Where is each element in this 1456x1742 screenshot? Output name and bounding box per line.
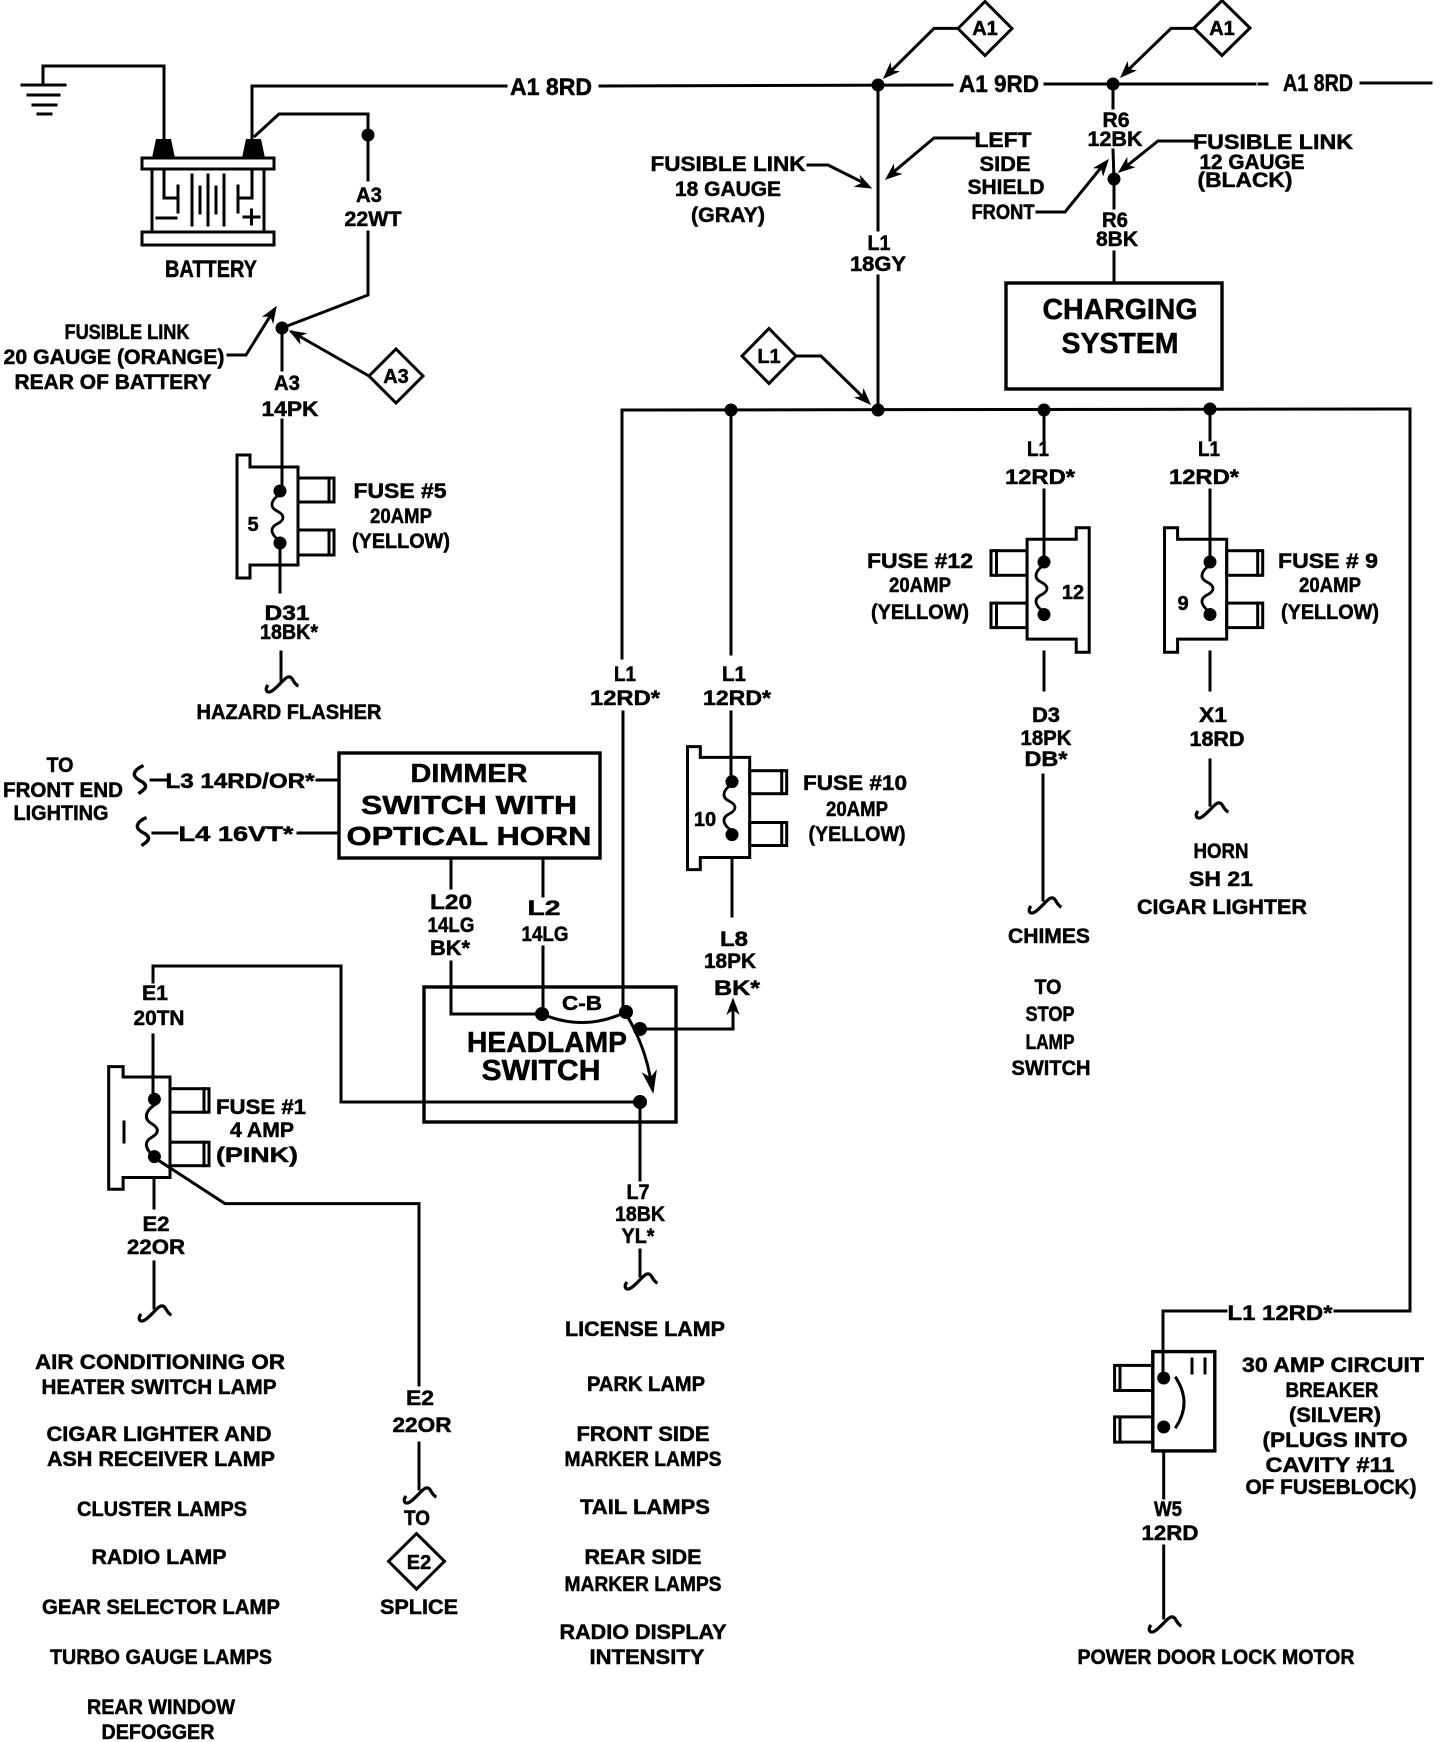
svg-text:REAR WINDOW: REAR WINDOW: [87, 1696, 235, 1719]
svg-text:SYSTEM: SYSTEM: [1062, 328, 1179, 360]
svg-text:LEFT: LEFT: [975, 129, 1032, 152]
svg-text:CHARGING: CHARGING: [1043, 294, 1198, 326]
svg-text:POWER DOOR LOCK MOTOR: POWER DOOR LOCK MOTOR: [1078, 1646, 1355, 1669]
svg-text:PARK LAMP: PARK LAMP: [587, 1373, 705, 1396]
svg-text:14LG: 14LG: [522, 923, 569, 946]
svg-text:L1: L1: [614, 663, 636, 686]
svg-text:DEFOGGER: DEFOGGER: [102, 1721, 215, 1742]
svg-text:14PK: 14PK: [262, 398, 319, 421]
svg-text:18BK: 18BK: [615, 1203, 665, 1226]
svg-text:A1: A1: [972, 18, 998, 40]
svg-text:18PK: 18PK: [1021, 727, 1072, 750]
svg-text:AIR CONDITIONING OR: AIR CONDITIONING OR: [35, 1351, 285, 1374]
svg-text:D3: D3: [1032, 704, 1060, 727]
svg-text:STOP: STOP: [1026, 1003, 1075, 1026]
svg-text:L1: L1: [722, 663, 746, 686]
svg-text:L1: L1: [1027, 438, 1049, 461]
svg-text:CAVITY #11: CAVITY #11: [1266, 1454, 1395, 1477]
svg-text:(PLUGS INTO: (PLUGS INTO: [1263, 1429, 1408, 1452]
svg-text:FRONT SIDE: FRONT SIDE: [577, 1423, 710, 1446]
svg-text:12RD*: 12RD*: [703, 687, 772, 710]
svg-text:20 GAUGE (ORANGE): 20 GAUGE (ORANGE): [4, 346, 225, 369]
svg-text:18 GAUGE: 18 GAUGE: [675, 178, 781, 201]
svg-text:A3: A3: [383, 366, 409, 388]
svg-text:L20: L20: [430, 891, 472, 914]
svg-text:OF FUSEBLOCK): OF FUSEBLOCK): [1246, 1476, 1417, 1499]
svg-text:8BK: 8BK: [1096, 228, 1138, 251]
svg-text:INTENSITY: INTENSITY: [590, 1646, 705, 1669]
svg-text:SIDE: SIDE: [980, 153, 1031, 176]
svg-text:L8: L8: [720, 928, 748, 951]
svg-text:(GRAY): (GRAY): [691, 204, 765, 227]
svg-text:FUSE # 9: FUSE # 9: [1278, 550, 1378, 573]
svg-text:HORN: HORN: [1194, 840, 1249, 863]
svg-text:10: 10: [694, 809, 716, 831]
svg-text:X1: X1: [1199, 704, 1227, 727]
svg-text:30 AMP CIRCUIT: 30 AMP CIRCUIT: [1242, 1354, 1424, 1377]
svg-text:22OR: 22OR: [393, 1414, 452, 1437]
svg-text:FUSE #10: FUSE #10: [803, 772, 907, 795]
svg-text:(PINK): (PINK): [216, 1144, 298, 1167]
svg-text:BATTERY: BATTERY: [165, 256, 257, 283]
svg-text:18RD: 18RD: [1190, 728, 1245, 751]
svg-text:L7: L7: [627, 1181, 650, 1204]
svg-text:CLUSTER LAMPS: CLUSTER LAMPS: [77, 1498, 247, 1521]
svg-text:LIGHTING: LIGHTING: [14, 802, 109, 825]
svg-text:RADIO DISPLAY: RADIO DISPLAY: [560, 1621, 727, 1644]
svg-text:E2: E2: [406, 1387, 434, 1410]
svg-text:12: 12: [1062, 582, 1084, 604]
svg-text:LAMP: LAMP: [1026, 1031, 1075, 1054]
svg-text:A3: A3: [274, 372, 300, 395]
svg-text:A1: A1: [1209, 18, 1235, 40]
svg-text:FRONT: FRONT: [972, 201, 1035, 224]
svg-text:FUSIBLE LINK: FUSIBLE LINK: [65, 321, 190, 344]
svg-text:TAIL LAMPS: TAIL LAMPS: [580, 1496, 710, 1519]
svg-text:(BLACK): (BLACK): [1198, 169, 1293, 192]
svg-text:L1: L1: [868, 232, 891, 255]
svg-text:L3 14RD/OR*: L3 14RD/OR*: [166, 770, 316, 793]
svg-text:12BK: 12BK: [1088, 128, 1143, 151]
svg-text:TO: TO: [1035, 976, 1062, 999]
svg-text:12RD*: 12RD*: [1169, 466, 1240, 489]
svg-text:HAZARD FLASHER: HAZARD FLASHER: [197, 701, 382, 724]
svg-text:SWITCH: SWITCH: [482, 1055, 601, 1087]
svg-text:TURBO GAUGE LAMPS: TURBO GAUGE LAMPS: [50, 1646, 272, 1669]
svg-text:12RD: 12RD: [1142, 1522, 1199, 1545]
svg-text:FUSE #5: FUSE #5: [354, 480, 447, 503]
svg-text:5: 5: [247, 514, 258, 536]
svg-text:SHIELD: SHIELD: [968, 176, 1045, 199]
svg-text:TO: TO: [47, 754, 74, 777]
svg-text:(SILVER): (SILVER): [1289, 1404, 1381, 1427]
svg-text:12RD*: 12RD*: [1005, 466, 1076, 489]
svg-text:L1: L1: [757, 346, 780, 368]
svg-text:W5: W5: [1154, 1498, 1182, 1521]
svg-text:SWITCH WITH: SWITCH WITH: [361, 790, 577, 820]
svg-text:18PK: 18PK: [704, 950, 756, 973]
svg-text:9: 9: [1177, 593, 1188, 615]
svg-text:E2: E2: [407, 1552, 431, 1574]
svg-text:20AMP: 20AMP: [889, 574, 951, 597]
svg-text:L4 16VT*: L4 16VT*: [179, 823, 295, 846]
svg-text:E1: E1: [142, 982, 168, 1005]
svg-text:FUSE #12: FUSE #12: [867, 550, 973, 573]
svg-text:DIMMER: DIMMER: [411, 758, 528, 788]
svg-text:18BK*: 18BK*: [260, 621, 319, 644]
svg-text:L1: L1: [1198, 438, 1220, 461]
svg-text:RADIO LAMP: RADIO LAMP: [92, 1546, 227, 1569]
svg-text:20AMP: 20AMP: [826, 798, 888, 821]
svg-text:OPTICAL HORN: OPTICAL HORN: [347, 821, 592, 851]
svg-text:4 AMP: 4 AMP: [230, 1119, 294, 1142]
svg-text:22WT: 22WT: [345, 208, 402, 231]
svg-text:CIGAR LIGHTER AND: CIGAR LIGHTER AND: [47, 1423, 272, 1446]
svg-text:ASH RECEIVER LAMP: ASH RECEIVER LAMP: [47, 1448, 275, 1471]
svg-text:FRONT END: FRONT END: [3, 779, 123, 802]
svg-text:22OR: 22OR: [127, 1236, 185, 1259]
svg-text:L1 12RD*: L1 12RD*: [1228, 1302, 1334, 1325]
svg-text:20AMP: 20AMP: [370, 505, 432, 528]
svg-text:HEATER SWITCH LAMP: HEATER SWITCH LAMP: [42, 1376, 277, 1399]
svg-text:(YELLOW): (YELLOW): [1281, 601, 1379, 624]
svg-text:FUSE #1: FUSE #1: [216, 1096, 306, 1119]
svg-text:REAR OF BATTERY: REAR OF BATTERY: [15, 371, 212, 394]
svg-text:18GY: 18GY: [850, 253, 906, 276]
svg-text:DB*: DB*: [1025, 748, 1069, 771]
svg-text:SWITCH: SWITCH: [1012, 1057, 1091, 1080]
svg-text:E2: E2: [143, 1213, 170, 1236]
svg-text:BK*: BK*: [714, 977, 761, 1000]
svg-text:BREAKER: BREAKER: [1286, 1379, 1379, 1402]
svg-text:L2: L2: [528, 897, 561, 920]
svg-text:FUSIBLE LINK: FUSIBLE LINK: [651, 153, 806, 176]
svg-text:14LG: 14LG: [428, 914, 475, 937]
svg-text:C-B: C-B: [562, 993, 602, 1015]
svg-text:(YELLOW): (YELLOW): [352, 530, 450, 553]
svg-text:MARKER LAMPS: MARKER LAMPS: [565, 1448, 722, 1471]
svg-text:(YELLOW): (YELLOW): [871, 601, 969, 624]
svg-text:20AMP: 20AMP: [1299, 574, 1361, 597]
svg-text:SH 21: SH 21: [1189, 868, 1253, 891]
svg-text:GEAR SELECTOR LAMP: GEAR SELECTOR LAMP: [42, 1596, 280, 1619]
svg-text:CIGAR LIGHTER: CIGAR LIGHTER: [1137, 896, 1307, 919]
svg-text:20TN: 20TN: [134, 1007, 185, 1030]
svg-text:CHIMES: CHIMES: [1008, 925, 1090, 948]
svg-text:A3: A3: [356, 184, 382, 207]
svg-text:LICENSE LAMP: LICENSE LAMP: [565, 1318, 725, 1341]
svg-text:BK*: BK*: [430, 937, 471, 960]
svg-text:YL*: YL*: [622, 1225, 656, 1248]
svg-text:A1 8RD: A1 8RD: [1283, 70, 1353, 97]
svg-text:A1 8RD: A1 8RD: [510, 74, 592, 101]
svg-text:REAR SIDE: REAR SIDE: [585, 1546, 702, 1569]
svg-text:A1 9RD: A1 9RD: [959, 71, 1039, 98]
svg-text:MARKER LAMPS: MARKER LAMPS: [565, 1573, 722, 1596]
svg-text:(YELLOW): (YELLOW): [809, 823, 906, 846]
svg-text:TO: TO: [404, 1507, 430, 1530]
svg-text:12RD*: 12RD*: [590, 687, 661, 710]
svg-text:SPLICE: SPLICE: [380, 1596, 458, 1619]
